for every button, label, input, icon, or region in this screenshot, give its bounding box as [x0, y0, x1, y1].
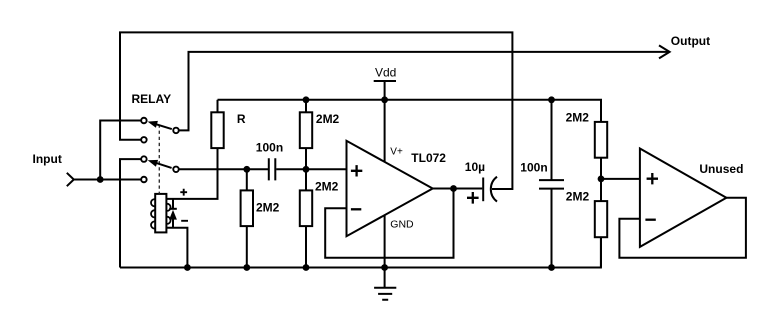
wire pole1 common to output line — [179, 52, 669, 130]
svg-text:2M2: 2M2 — [566, 111, 590, 125]
svg-text:2M2: 2M2 — [315, 179, 339, 193]
resistor 2M2 lower mid — [300, 190, 312, 226]
op-amp U2 unused — [640, 149, 727, 247]
svg-text:10µ: 10µ — [465, 160, 485, 174]
resistor R — [211, 112, 223, 148]
relay arm pole2 arrowhead — [148, 160, 158, 167]
relay coil body — [155, 194, 166, 233]
output arrowhead — [659, 45, 670, 58]
capacitor 100n right plates — [539, 180, 564, 189]
relay coil left bumps — [151, 199, 158, 229]
junction input node — [97, 176, 104, 183]
junction signal node B — [303, 166, 310, 173]
wire top feedback loop from 10u cap output to relay pole1 lower throw — [120, 32, 512, 189]
wire 100n2 top stem — [551, 100, 553, 180]
svg-text:Output: Output — [671, 34, 710, 48]
svg-text:Input: Input — [33, 152, 62, 166]
relay contact pole2 throw A — [141, 156, 147, 162]
op-amp U2 minus sign — [645, 219, 655, 221]
wire divider tap to unused opamp — [601, 178, 640, 180]
wire R bottom to relay coil plus node — [166, 148, 217, 199]
wire opamp GND pin to ground bus — [384, 215, 386, 267]
junction divider tap — [598, 176, 605, 183]
wire pole2 top throw to ground bus — [120, 159, 141, 267]
wire Vdd rail — [218, 100, 602, 122]
capacitor 10u plus plate — [482, 178, 484, 202]
svg-text:TL072: TL072 — [411, 151, 446, 165]
svg-text:GND: GND — [390, 218, 414, 230]
relay mechanical dashed link — [158, 125, 160, 194]
op-amp U1 minus sign — [351, 208, 361, 210]
svg-text:Vdd: Vdd — [375, 65, 396, 79]
diode triangle — [169, 210, 177, 220]
relay contact pole2 common — [173, 167, 179, 173]
junction Vdd rail at stem — [381, 96, 388, 103]
resistor 2M2 upper mid — [300, 112, 312, 148]
junction bus at 2M2 mid — [303, 264, 310, 271]
wire 2M2 lower mid bottom stub — [305, 226, 307, 267]
relay contact pole1 common — [173, 128, 179, 134]
relay contact pole2 throw B — [141, 177, 147, 183]
resistor 2M2 divider bottom — [595, 201, 607, 237]
wire 2M2 upper mid column stub — [305, 100, 307, 113]
wire 2M2 left column top stub — [246, 169, 248, 190]
junction Vdd rail at 100n — [548, 96, 555, 103]
wire 2M2 left column bottom stub — [246, 226, 248, 267]
relay arm pole2 — [157, 163, 172, 168]
wire input junction up to pole1 top throw — [100, 121, 141, 180]
relay contact pole1 throw B — [141, 137, 147, 143]
coil plus sign — [180, 189, 187, 196]
resistor 2M2 lower left — [241, 190, 253, 226]
junction bus at 100n2 — [548, 264, 555, 271]
junction bus at 2M2 left — [243, 264, 250, 271]
coil minus sign — [181, 220, 188, 222]
input terminal symbol — [67, 173, 74, 186]
wire opamp output to 10u cap — [433, 188, 483, 190]
relay arm pole1 — [156, 124, 171, 129]
svg-text:2M2: 2M2 — [316, 112, 340, 126]
wire R top stub — [217, 100, 219, 113]
svg-text:100n: 100n — [256, 140, 283, 154]
svg-text:R: R — [237, 112, 246, 126]
junction Vdd rail at 2M2 — [303, 96, 310, 103]
svg-text:100n: 100n — [520, 161, 547, 175]
svg-text:RELAY: RELAY — [132, 92, 172, 106]
capacitor 10u plus sign — [467, 192, 479, 204]
wire 100n to opamp noninverting input — [276, 168, 346, 170]
svg-text:Unused: Unused — [699, 162, 743, 176]
wire divider bottom stub — [600, 237, 602, 267]
capacitor 100n left plates — [269, 158, 276, 180]
op-amp U2 plus sign — [647, 173, 658, 184]
capacitor 10u curved plate — [491, 177, 497, 202]
svg-text:2M2: 2M2 — [566, 190, 590, 204]
wire pole2 common to 100n — [179, 168, 268, 170]
wire divider middle stub — [600, 158, 602, 201]
wire 100n2 bottom stem — [551, 189, 553, 268]
wire feedback output to inverting input — [325, 189, 453, 258]
ground — [374, 268, 396, 300]
wire coil minus to ground bus — [166, 228, 187, 268]
resistor 2M2 divider top — [595, 122, 607, 158]
wire unused opamp feedback — [619, 198, 746, 258]
wire 2M2 mid column middle stub — [305, 148, 307, 190]
junction bus at coil — [184, 264, 191, 271]
junction signal node A — [243, 166, 250, 173]
junction opamp output — [450, 185, 457, 192]
op-amp U1 plus sign — [351, 165, 362, 176]
wire input to pole2 lower throw — [74, 179, 141, 181]
junction bus at gnd — [381, 264, 388, 271]
diode cathode bar — [169, 208, 177, 210]
relay arm pole1 arrowhead — [148, 121, 158, 128]
wire Vdd stem to opamp V+ pin — [384, 81, 386, 162]
relay contact pole1 throw A — [141, 118, 147, 124]
op-amp U1 TL072 — [347, 141, 433, 236]
svg-text:V+: V+ — [390, 147, 403, 158]
wire bottom ground bus — [120, 237, 601, 267]
power Vdd bar — [374, 80, 396, 82]
svg-text:2M2: 2M2 — [256, 200, 280, 214]
relay coil right bumps — [163, 204, 170, 224]
diode flyback wires — [172, 199, 174, 228]
